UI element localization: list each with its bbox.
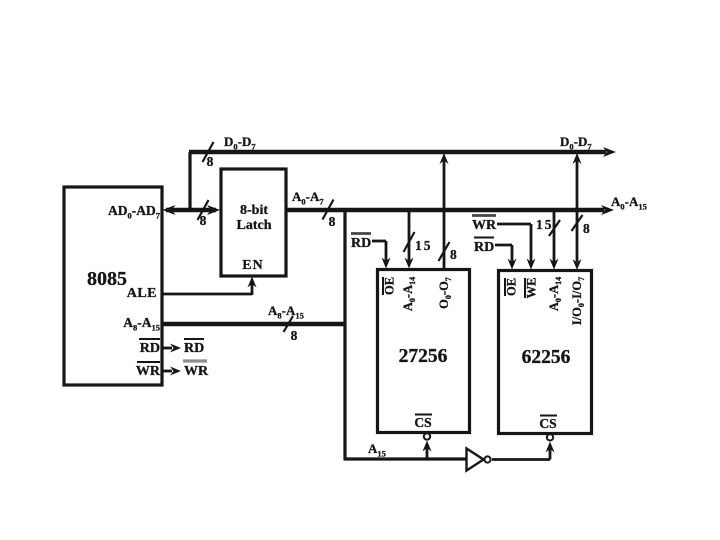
svg-text:RD: RD (140, 341, 160, 356)
wire A bus to 27256 A0-A14 with arrow (405, 212, 414, 269)
svg-text:8: 8 (450, 247, 457, 262)
pin label WE (62256, rotated) (525, 278, 539, 299)
27256 CS bubble and arrow from A15 line (423, 433, 432, 459)
svg-text:RD: RD (351, 236, 371, 251)
svg-text:OE: OE (505, 278, 519, 296)
bus width slash 15 on 27256 address (404, 232, 433, 253)
net label A8-A15 (268, 303, 304, 321)
svg-text:8: 8 (583, 221, 590, 236)
pin label OE (62256, rotated) (505, 278, 519, 296)
wire vertical joining D bus to AD bus (188, 152, 191, 210)
62256 SRAM block U5 (499, 271, 592, 434)
pin label A0-A14 (62256, rotated) (547, 277, 563, 311)
svg-text:15: 15 (415, 238, 433, 253)
svg-text:27256: 27256 (399, 346, 448, 367)
wire A15 horizontal to inverter (344, 457, 467, 460)
net label RD (62256 OE source) (474, 238, 494, 256)
label 62256 (522, 347, 571, 368)
bus width slash 8 on A8-A15 (284, 316, 298, 343)
8085 CPU block U1 (64, 187, 162, 385)
svg-text:CS: CS (414, 415, 431, 430)
svg-text:8: 8 (329, 214, 336, 229)
svg-text:OE: OE (383, 277, 397, 295)
pin label A8-A15 (123, 315, 160, 333)
8-bit latch U2 (221, 169, 286, 276)
wire RD to 27256 OE with arrow (372, 241, 391, 269)
wire WR output arrow of 8085 (163, 367, 181, 376)
pin label I/O0-I/O7 (62256, rotated) (570, 277, 586, 325)
net label D0-D7 (left) (224, 134, 256, 152)
bus width slash 15 on 62256 address (536, 217, 560, 236)
bus width slash 8 on A0-A7 (323, 200, 336, 230)
svg-text:O0-O7: O0-O7 (437, 277, 453, 309)
inverter gate (A15 to 62256 CS) (467, 449, 491, 471)
wire 62256 I/O to D bus (bidirectional arrows) (573, 153, 582, 270)
wire RD output arrow of 8085 (163, 344, 181, 353)
pin label ALE (127, 286, 157, 301)
net label WR (external) (183, 361, 209, 379)
svg-text:ALE: ALE (127, 286, 157, 301)
svg-text:RD: RD (184, 341, 204, 356)
svg-text:WE: WE (525, 278, 539, 299)
bus width slash 8 on D bus (203, 142, 214, 169)
svg-text:8: 8 (291, 328, 298, 343)
pin label AD0-AD7 (108, 203, 161, 221)
pin label RD (8085, active low) (139, 339, 160, 356)
pin label CS (27256) (414, 415, 432, 431)
bus width slash 8 on 27256 data (439, 242, 458, 262)
pin label EN (latch enable) (242, 258, 263, 273)
wire 27256 O0-O7 up to D bus with arrow (440, 153, 449, 269)
wire RD to 62256 OE with arrow (495, 245, 517, 270)
svg-text:AD0-AD7: AD0-AD7 (108, 203, 161, 221)
pin label CS (62256) (539, 416, 557, 432)
svg-text:8: 8 (207, 154, 214, 169)
wire A bus to 62256 A0-A14 with arrow (550, 212, 559, 270)
svg-text:WR: WR (136, 364, 161, 379)
wire A8-A15 bus (8085 to vertical join) (162, 322, 346, 326)
svg-text:EN: EN (242, 258, 263, 273)
pin label O0-O7 (27256, rotated) (437, 277, 453, 309)
wire inverter output to 62256 CS with arrow (492, 434, 555, 459)
svg-text:Latch: Latch (237, 218, 272, 233)
wire ALE to latch EN with arrow (161, 277, 257, 296)
net label A15 (368, 441, 386, 459)
svg-text:I/O0-I/O7: I/O0-I/O7 (570, 277, 586, 325)
net label A0-A7 (292, 189, 324, 207)
wire A0-A15 address bus (latch output to right, arrow) (286, 205, 614, 215)
net label WR (62256 WE source) (472, 216, 497, 234)
svg-text:15: 15 (536, 217, 554, 232)
net label D0-D7 (right) (560, 134, 592, 152)
label 27256 (399, 346, 448, 367)
bus width slash 8 on 62256 data (572, 215, 591, 236)
net label RD (external) (184, 339, 204, 356)
svg-text:WR: WR (472, 218, 497, 233)
svg-text:CS: CS (539, 416, 556, 431)
svg-text:62256: 62256 (522, 347, 571, 368)
svg-text:8085: 8085 (87, 268, 127, 290)
svg-text:8: 8 (200, 213, 207, 228)
net label RD (27256 OE source) (351, 234, 371, 252)
bus width slash 8 on AD bus (198, 200, 209, 228)
pin label OE (27256, rotated) (383, 277, 397, 295)
pin label WR (8085, active low) (136, 362, 161, 379)
27256 EPROM block U4 (378, 270, 470, 433)
pin label A0-A14 (27256, rotated) (401, 277, 417, 311)
wire AD0-AD7 bus (8085 to latch, bidirectional) (163, 205, 221, 215)
wire vertical A-bus join (x=345) down to A15 line (343, 212, 346, 459)
label 8085 (87, 268, 127, 290)
svg-text:WR: WR (184, 364, 209, 379)
net label A0-A15 (right end) (611, 194, 647, 212)
wire WR to 62256 WE with arrow (497, 224, 536, 270)
wire D0-D7 data bus (top horizontal) (189, 147, 616, 157)
svg-text:RD: RD (474, 240, 494, 255)
svg-text:8-bit: 8-bit (240, 203, 268, 218)
